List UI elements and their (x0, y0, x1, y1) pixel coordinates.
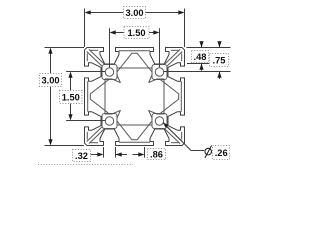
centerline, left slot lower (66, 120, 105, 122)
.48 lower arrow stub (201, 64, 203, 71)
inner face stub H bottom-right (171, 142, 179, 144)
.75 lower arrow stub (219, 72, 221, 79)
dimension line .86, left stub (116, 154, 128, 156)
arrow, 3.00 left top (48, 48, 52, 54)
extension line, top face extended right (187, 47, 231, 49)
dimension line 1.50 top, right segment (149, 32, 154, 34)
extension line, bottom slot left edge (103, 147, 105, 158)
dimension line 3.00 left, lower segment (50, 87, 52, 141)
dimension line .86, right stub (133, 154, 140, 156)
corner hole bottom-left (105, 117, 113, 125)
corner web line B top-right (165, 49, 180, 64)
lip plane line, bottom wall (119, 141, 150, 143)
extension line, left edge of 3.00 width (84, 9, 86, 48)
svg-text:.75: .75 (213, 55, 226, 65)
corner web line A top-right (167, 52, 182, 67)
arrow, .75 bottom (up) (217, 72, 221, 78)
dimension line 3.00 left, upper segment (50, 53, 52, 74)
dimension line 3.00 top, left segment (90, 12, 124, 14)
extension line, slot lip right side (187, 63, 209, 65)
label box 3.00 top (124, 7, 146, 19)
centerline, left slot upper (66, 71, 105, 73)
label box .26 (213, 146, 230, 160)
corner hole top-right (155, 68, 163, 76)
label box .32 bottom (73, 150, 91, 162)
.48 upper arrow stub (201, 41, 203, 47)
screw boss, top-right quadrant (152, 65, 167, 80)
extrusion outer boundary with T-slot cavities (85, 48, 185, 146)
svg-text:3.00: 3.00 (41, 76, 59, 86)
inner face stub H top-right (171, 49, 179, 51)
corner web line A top-left (87, 52, 102, 67)
inner face stub V bottom-right (181, 132, 183, 140)
arrow, 1.50 left top (68, 72, 72, 78)
label box 3.00 left (40, 74, 62, 87)
arrow, 3.00 left bottom (48, 139, 52, 145)
diameter symbol (205, 148, 212, 155)
A-shaped web void, right wall (160, 79, 179, 113)
arrow, .32/.86 shared (left-pointing) (116, 152, 122, 156)
corner hole top-left (105, 68, 113, 76)
extension line, .86 right end (144, 147, 146, 158)
arrow, 1.50 top left (110, 30, 116, 34)
extension line, top of left 3.00 height (45, 47, 85, 49)
extension line, bottom slot right edge (115, 147, 117, 158)
A-shaped web void, bottom wall (117, 121, 152, 140)
dimension line .32, label to arrow (91, 154, 98, 156)
dimension line 3.00 top, right segment (146, 12, 180, 14)
label box .75 right (210, 54, 229, 67)
corner web line A bottom-left (87, 127, 102, 142)
A-shaped web void, top wall (117, 53, 152, 72)
corner web line B top-left (89, 49, 104, 64)
arrow, 1.50 top right (153, 30, 159, 34)
centerline / extension, top slot left (109, 28, 111, 67)
lip plane line, left wall (87, 81, 89, 111)
corner web line B bottom-right (165, 129, 180, 144)
inner face stub H top-left (91, 49, 99, 51)
arrow, 1.50 left bottom (68, 114, 72, 120)
corner web line A bottom-right (167, 127, 182, 142)
arrow, .48 top (down) (199, 41, 203, 47)
lip plane line, top wall (119, 50, 150, 52)
centerline, right slot upper extended (164, 71, 231, 73)
arrow, .75 top (down) (217, 41, 221, 47)
screw boss, bottom-left quadrant (102, 114, 117, 129)
extension line, bottom of left 3.00 height (45, 145, 85, 147)
svg-text:1.50: 1.50 (127, 28, 145, 38)
central hollow core void with corner beaks and side recesses (105, 68, 164, 125)
dotted guide line bottom (38, 164, 133, 166)
inner face stub H bottom-left (91, 142, 99, 144)
arrow, 3.00 top left (85, 10, 91, 14)
inner face stub V bottom-left (86, 132, 88, 140)
label box 1.50 top (124, 27, 149, 39)
dimension line 1.50 top, left segment (115, 32, 124, 34)
A-shaped web void, left wall (90, 79, 109, 113)
dimension line 1.50 left, upper segment (70, 77, 72, 91)
arrow, .48 bottom (up) (199, 64, 203, 70)
label box 1.50 left (60, 91, 83, 104)
label box .48 right (192, 51, 209, 63)
svg-text:3.00: 3.00 (125, 8, 143, 18)
label box .86 bottom (148, 149, 166, 160)
screw boss, bottom-right quadrant (152, 114, 167, 129)
extension line, right edge of 3.00 width (184, 9, 186, 48)
corner web line B bottom-left (89, 129, 104, 144)
lip plane line, right wall (180, 81, 182, 111)
dimension line 1.50 left, lower segment (70, 104, 72, 116)
.75 upper arrow stub (219, 41, 221, 47)
svg-text:.26: .26 (215, 148, 228, 158)
arrow, .86 right (right-pointing) (138, 152, 144, 156)
inner face stub V top-left (86, 54, 88, 62)
svg-text:1.50: 1.50 (62, 93, 80, 103)
arrow, .32 left (right-pointing) (97, 152, 103, 156)
screw boss, top-left quadrant (102, 65, 117, 80)
leader line for hole diameter (163, 122, 204, 150)
corner hole bottom-right (155, 117, 163, 125)
svg-text:.86: .86 (150, 149, 163, 159)
arrow, 3.00 top right (178, 10, 184, 14)
leader arrow at hole (163, 122, 169, 127)
svg-text:.48: .48 (194, 52, 207, 62)
svg-text:.32: .32 (75, 151, 88, 161)
inner face stub V top-right (181, 54, 183, 62)
centerline / extension, top slot right (159, 28, 161, 67)
